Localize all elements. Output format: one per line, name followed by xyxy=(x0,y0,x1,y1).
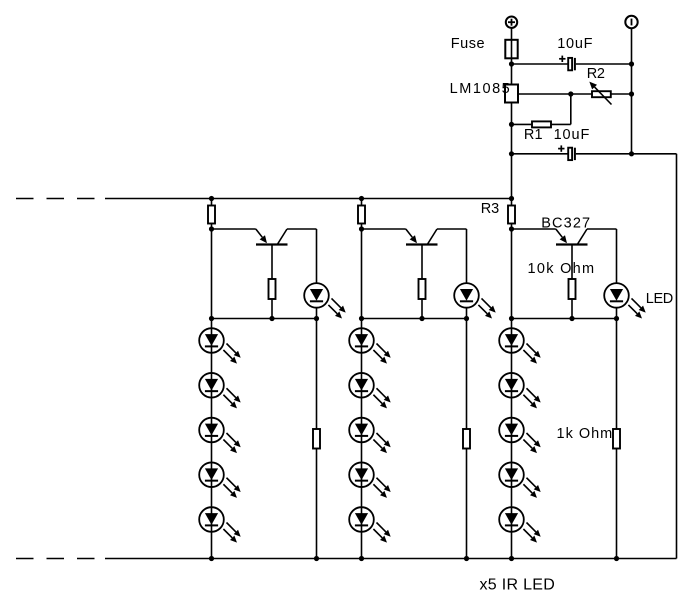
node: R1 junction on output column xyxy=(509,122,514,127)
node: output cap on negative rail xyxy=(629,151,634,156)
wire top rail to resistor R3 xyxy=(511,199,513,206)
positive supply terminal xyxy=(506,17,517,28)
IR LED string wire (column 3) xyxy=(511,229,513,559)
wire base down to base resistor (column 3) xyxy=(571,245,573,280)
svg-text:R3: R3 xyxy=(481,201,499,217)
bottom return rail wire xyxy=(105,558,677,560)
wire from + terminal through fuse to LM1085 input xyxy=(511,28,513,85)
IR LED 1 (column 3) xyxy=(499,328,541,363)
node: string on bottom rail (column 1) xyxy=(209,556,214,561)
node: mid junction at base resistor (column 3) xyxy=(569,316,574,321)
fuse F1 xyxy=(505,40,517,59)
wire LED leg down to ballast resistor (column 2) xyxy=(466,319,468,430)
IR LED 1 (column 2) xyxy=(349,328,391,363)
resistor 10k Ohm xyxy=(569,279,576,299)
capacitor C2 10uF (output) xyxy=(558,145,575,160)
IR LED 2 (column 1) xyxy=(199,373,241,408)
wire output column to output cap xyxy=(512,153,569,155)
label LM1085 xyxy=(450,81,512,97)
node A: emitter/string junction (column 1) xyxy=(209,226,214,231)
negative supply terminal xyxy=(625,16,637,28)
potentiometer R2 xyxy=(589,82,611,105)
node: fuse output / input cap junction xyxy=(509,61,514,66)
bottom rail dashed continuation (left) xyxy=(16,558,95,560)
wire base resistor to mid node (column 2) xyxy=(421,299,423,319)
resistor R1 xyxy=(532,121,551,127)
top rail dashed continuation (left) xyxy=(16,198,95,200)
IR LED 5 (column 1) xyxy=(199,507,241,542)
svg-text:10uF: 10uF xyxy=(557,36,593,52)
svg-text:R1: R1 xyxy=(524,127,543,143)
wire ballast resistor to bottom rail (column 3) xyxy=(616,449,618,559)
node: mid junction at base resistor (column 1) xyxy=(269,316,274,321)
wire ballast resistor to bottom rail (column 2) xyxy=(466,449,468,559)
transistor BC327 (column 1) xyxy=(256,229,288,245)
ballast resistor 1k (column 1) xyxy=(313,429,320,449)
wire base resistor to mid node (column 1) xyxy=(271,299,273,319)
base resistor 10k (column 2) xyxy=(419,279,426,299)
wire output column to R1 xyxy=(512,123,533,125)
wire indicator LED to mid node (column 2) xyxy=(466,308,468,319)
IR LED 5 (column 3) xyxy=(499,507,541,542)
mid junction wire (column 1) xyxy=(212,318,317,320)
label R2 xyxy=(587,66,605,82)
IR LED 2 (column 3) xyxy=(499,373,541,408)
IR LED string wire (column 1) xyxy=(211,229,213,559)
wire node A to emitter (column 1) xyxy=(212,228,256,230)
node: ballast leg on bottom rail (column 1) xyxy=(314,556,319,561)
node: ballast leg on bottom rail (column 2) xyxy=(464,556,469,561)
label BC327 xyxy=(541,216,591,232)
label R1 xyxy=(524,127,543,143)
wire LM1085 output to R2 xyxy=(518,93,592,95)
wire negative rail to far-right return xyxy=(632,153,677,155)
svg-text:10uF: 10uF xyxy=(554,127,591,143)
label 10k Ohm xyxy=(528,261,596,277)
transistor BC327 (column 2) xyxy=(406,229,438,245)
node: column 2 on top rail xyxy=(359,196,364,201)
wire far-right return (down right edge) xyxy=(676,154,678,559)
node: input cap on negative rail xyxy=(629,61,634,66)
wire node A to emitter (column 3) xyxy=(512,228,556,230)
wire R1 to adjust junction xyxy=(551,123,571,125)
node: mid junction at LED leg (column 3) xyxy=(614,316,619,321)
indicator LED (column 1) xyxy=(304,283,346,318)
svg-text:1k Ohm: 1k Ohm xyxy=(557,426,614,442)
IR LED 3 (column 2) xyxy=(349,418,391,453)
wire R2 to negative rail xyxy=(611,93,632,95)
label 10uF (input cap) xyxy=(557,36,593,52)
wire collector to indicator LED (column 2) xyxy=(437,229,467,283)
node: ballast leg on bottom rail (column 3) xyxy=(614,556,619,561)
IR LED 4 (column 1) xyxy=(199,462,241,497)
node: output cap junction xyxy=(509,151,514,156)
node: string on bottom rail (column 2) xyxy=(359,556,364,561)
IR LED 5 (column 2) xyxy=(349,507,391,542)
label Fuse xyxy=(451,36,485,52)
node: string on bottom rail (column 3) xyxy=(509,556,514,561)
wire node A to emitter (column 2) xyxy=(362,228,406,230)
svg-text:BC327: BC327 xyxy=(541,216,591,232)
resistor R3 xyxy=(508,206,515,224)
IR LED 2 (column 2) xyxy=(349,373,391,408)
node A: emitter/string junction (column 3) xyxy=(509,226,514,231)
indicator LED (column 2) xyxy=(454,283,496,318)
node: mid junction at string (column 2) xyxy=(359,316,364,321)
IR LED 4 (column 2) xyxy=(349,462,391,497)
IR LED 3 (column 1) xyxy=(199,418,241,453)
label LED xyxy=(646,291,673,307)
ballast resistor 1k (column 2) xyxy=(463,429,470,449)
mid junction wire (column 2) xyxy=(362,318,467,320)
wire input cap to negative rail xyxy=(576,63,632,65)
wire fuse output to input cap xyxy=(512,63,569,65)
base feed resistor (column 1) xyxy=(208,206,215,224)
svg-text:LM1085: LM1085 xyxy=(450,81,512,97)
wire top rail to base feed resistor (column 1) xyxy=(211,199,213,206)
wire resistor to node A (column 2) xyxy=(361,224,363,230)
IR LED 1 (column 1) xyxy=(199,328,241,363)
IR LED 3 (column 3) xyxy=(499,418,541,453)
label x5 IR LED xyxy=(480,577,556,594)
wire indicator LED to mid node (column 1) xyxy=(316,308,318,319)
label 1k Ohm xyxy=(557,426,614,442)
svg-text:10k Ohm: 10k Ohm xyxy=(528,261,596,277)
IR LED 4 (column 3) xyxy=(499,462,541,497)
node: LM1085 adjust/R1/R2 junction xyxy=(568,91,573,96)
capacitor C1 10uF (input) xyxy=(559,56,575,71)
node: mid junction at string (column 3) xyxy=(509,316,514,321)
wire collector to indicator LED (column 1) xyxy=(287,229,317,283)
negative rail wire (terminal down to output cap line) xyxy=(631,28,633,154)
wire resistor to node A (column 1) xyxy=(211,224,213,230)
node A: emitter/string junction (column 2) xyxy=(359,226,364,231)
node: mid junction at LED leg (column 1) xyxy=(314,316,319,321)
wire base down to base resistor (column 1) xyxy=(271,245,273,280)
svg-text:R2: R2 xyxy=(587,66,605,82)
svg-text:Fuse: Fuse xyxy=(451,36,485,52)
base resistor 10k (column 1) xyxy=(269,279,276,299)
svg-text:x5 IR LED: x5 IR LED xyxy=(480,577,556,594)
node: mid junction at string (column 1) xyxy=(209,316,214,321)
wire LED leg down to ballast resistor (column 3) xyxy=(616,319,618,430)
wire adjust junction down to R1 xyxy=(570,94,572,124)
node: column 3 on top rail xyxy=(509,196,514,201)
top positive rail wire xyxy=(105,198,512,200)
regulator U1 LM1085 xyxy=(505,85,518,103)
base feed resistor (column 2) xyxy=(358,206,365,224)
wire collector to indicator LED (column 3) xyxy=(587,229,617,283)
node: column 1 on top rail xyxy=(209,196,214,201)
wire base resistor to mid node (column 3) xyxy=(571,299,573,319)
transistor Q3 BC327 xyxy=(556,229,588,245)
wire resistor to node A (column 3) xyxy=(511,224,513,230)
wire indicator LED to mid node (column 3) xyxy=(616,308,618,319)
wire top rail to base feed resistor (column 2) xyxy=(361,199,363,206)
resistor 1k Ohm xyxy=(613,429,620,449)
mid junction wire (column 3) xyxy=(512,318,617,320)
node: R2 on negative rail xyxy=(629,91,634,96)
node: mid junction at LED leg (column 2) xyxy=(464,316,469,321)
svg-text:LED: LED xyxy=(646,291,673,307)
wire LED leg down to ballast resistor (column 1) xyxy=(316,319,318,430)
IR LED string wire (column 2) xyxy=(361,229,363,559)
wire ballast resistor to bottom rail (column 1) xyxy=(316,449,318,559)
node: mid junction at base resistor (column 2) xyxy=(419,316,424,321)
label 10uF (output cap) xyxy=(554,127,591,143)
wire output cap to negative rail xyxy=(576,153,632,155)
label R3 xyxy=(481,201,499,217)
wire LM1085 output column xyxy=(511,103,513,199)
indicator LED D-ind3 xyxy=(604,283,646,318)
wire base down to base resistor (column 2) xyxy=(421,245,423,280)
